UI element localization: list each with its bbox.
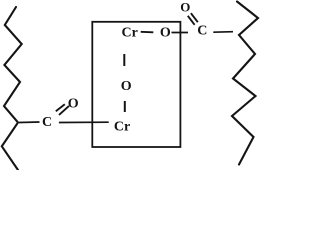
svg-text:O: O xyxy=(160,25,171,40)
svg-text:O: O xyxy=(180,0,190,14)
wire: C to Cr (enters rectangle) xyxy=(59,121,109,123)
bond O-Cr vertical (lower, in box) xyxy=(124,101,126,112)
wire: O to C (crosses box edge) xyxy=(172,32,189,34)
wire: C to right chain xyxy=(213,31,233,34)
svg-text:C: C xyxy=(42,115,52,130)
wire: Cr to O (top, in box) xyxy=(141,31,154,34)
right alkyl chain xyxy=(232,2,258,165)
left alkyl chain xyxy=(2,7,22,170)
double bond O=C (right) xyxy=(191,13,198,22)
bond Cr-O vertical (upper, in box) xyxy=(123,54,125,66)
svg-text:Cr: Cr xyxy=(114,120,130,135)
svg-text:O: O xyxy=(121,79,132,94)
double bond C=O (left) xyxy=(56,104,65,111)
svg-text:Cr: Cr xyxy=(122,26,138,41)
svg-text:O: O xyxy=(68,97,79,112)
wire: chain to C (left carboxylate) xyxy=(19,121,40,124)
rectangle (surface box) xyxy=(92,22,180,147)
svg-text:C: C xyxy=(197,24,207,39)
